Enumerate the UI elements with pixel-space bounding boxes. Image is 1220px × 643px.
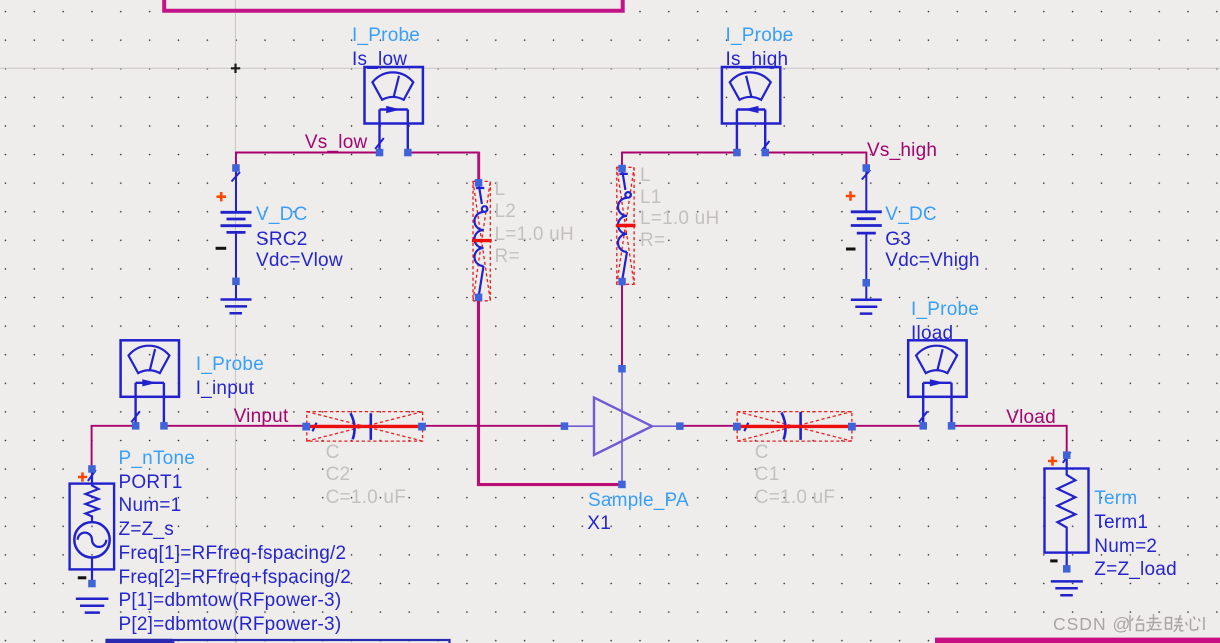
label Z=Z_s — [119, 519, 174, 541]
wire SRC2 drop — [235, 152, 237, 168]
ground for G3 — [851, 300, 882, 314]
plus sign PORT1 — [78, 472, 87, 481]
wire Vs_low horizontal left — [236, 152, 380, 154]
label I_Probe (Is_high) — [726, 25, 794, 47]
ground for Term1 — [1051, 581, 1083, 595]
wire input left corner — [92, 426, 136, 469]
label Is_high — [726, 49, 789, 71]
ghost label L (L1) — [640, 165, 651, 187]
wire L1 top drop — [621, 152, 623, 169]
inductor L1 (deactivated/shorted) — [616, 165, 636, 285]
label Freq[1] — [119, 543, 347, 565]
label Num=2 — [1094, 536, 1157, 558]
ghost label C=1.0 uF (C2) — [326, 487, 406, 509]
watermark text CSDN — [1053, 614, 1131, 635]
label Freq[2] — [119, 567, 352, 589]
top highlighted rectangle (partially visible) — [164, 0, 623, 11]
ghost label L=1.0 uH (L2) — [495, 224, 574, 246]
current probe Is_high (arrow left) — [722, 67, 780, 156]
label PORT1 — [119, 472, 183, 494]
inductor L2 (deactivated/shorted) — [472, 179, 492, 301]
ghost label C1 — [755, 464, 780, 486]
ground for SRC2 — [221, 300, 252, 314]
plus sign G3 — [846, 191, 856, 200]
ghost label C (C2) — [326, 442, 340, 464]
label Vdc=Vlow — [256, 250, 343, 272]
wire C2 to amp input — [422, 425, 565, 427]
minus sign G3 — [846, 248, 856, 251]
ghost label C=1.0 uF (C1) — [755, 487, 835, 509]
label Z=Z_load — [1094, 559, 1177, 581]
ghost label L (L2) — [495, 179, 506, 201]
text labels layer — [0, 0, 1220, 1]
wire Vs_high horizontal left — [622, 152, 737, 154]
capacitor C2 (deactivated/shorted) — [302, 412, 426, 442]
net label Vinput — [234, 406, 289, 428]
label Vdc=Vhigh — [885, 250, 979, 272]
ghost label C2 — [326, 464, 351, 486]
wire I_input to C2 — [164, 425, 306, 427]
label SRC2 — [256, 229, 308, 251]
terminator Term1 — [1045, 451, 1089, 572]
minus sign Term1 — [1050, 559, 1057, 562]
label Term1 — [1094, 512, 1148, 534]
ghost label L2 — [495, 201, 517, 223]
label V_DC (SRC2) — [256, 204, 308, 226]
wire C1 to Iload — [852, 425, 923, 427]
bottom-left window bar — [106, 639, 450, 643]
ghost label R= (L2) — [495, 246, 520, 268]
label I_Probe (Iload) — [911, 299, 979, 321]
net label Vs_low — [305, 132, 368, 154]
bottom-right pink bar — [935, 638, 1220, 643]
wire L2 bottom to amp bias (highlighted net) — [479, 297, 623, 484]
label Num=1 — [119, 495, 182, 517]
label I_input — [196, 378, 255, 400]
label Is_low — [352, 49, 407, 71]
DC source V_DC SRC2 — [221, 164, 252, 298]
label V_DC (G3) — [885, 204, 937, 226]
label I_Probe (Is_low) — [352, 25, 420, 47]
current probe I_input — [121, 340, 179, 429]
plus sign SRC2 — [217, 192, 227, 201]
minus sign PORT1 — [78, 576, 87, 579]
net label Vs_high — [867, 140, 937, 162]
net label Vload — [1006, 407, 1056, 429]
minus sign SRC2 — [216, 247, 227, 250]
wire amp output to C1 — [680, 425, 737, 427]
wire Vs_low horizontal right — [408, 152, 479, 154]
label G3 — [885, 229, 911, 251]
label X1 — [587, 513, 611, 535]
label P_nTone — [119, 448, 196, 470]
wire Iload to Term corner — [952, 426, 1067, 455]
label Iload — [911, 323, 953, 345]
label Term — [1094, 488, 1137, 510]
capacitor C1 (deactivated/shorted) — [733, 412, 856, 442]
label Sample_PA — [588, 490, 689, 512]
watermark tail letter — [1202, 614, 1206, 635]
grid cross marker — [231, 64, 240, 73]
wire L2 top drop (highlighted net) — [477, 152, 480, 183]
DC source V_DC G3 — [851, 164, 882, 299]
label P[1] — [119, 590, 342, 612]
ground for PORT1 — [76, 599, 109, 613]
watermark CJK glyphs — [1127, 614, 1200, 632]
wire Vs_high horizontal right — [765, 152, 866, 154]
current probe Is_low — [365, 67, 423, 156]
major grid vertical line — [234, 0, 236, 643]
ghost label C (C1) — [755, 442, 769, 464]
wire L1 bottom to amp top — [621, 282, 623, 369]
ghost label L1 — [640, 187, 662, 209]
wire G3 drop — [865, 152, 867, 168]
amplifier X1 Sample_PA — [561, 365, 684, 488]
source P_nTone PORT1 — [70, 465, 115, 587]
plus sign Term1 — [1048, 456, 1057, 465]
label I_Probe (I_input) — [196, 354, 264, 376]
ghost label L=1.0 uH (L1) — [640, 208, 719, 230]
ghost label R= (L1) — [640, 230, 665, 252]
major grid horizontal line — [0, 67, 1220, 69]
current probe Iload — [908, 340, 966, 429]
label P[2] — [119, 614, 342, 636]
